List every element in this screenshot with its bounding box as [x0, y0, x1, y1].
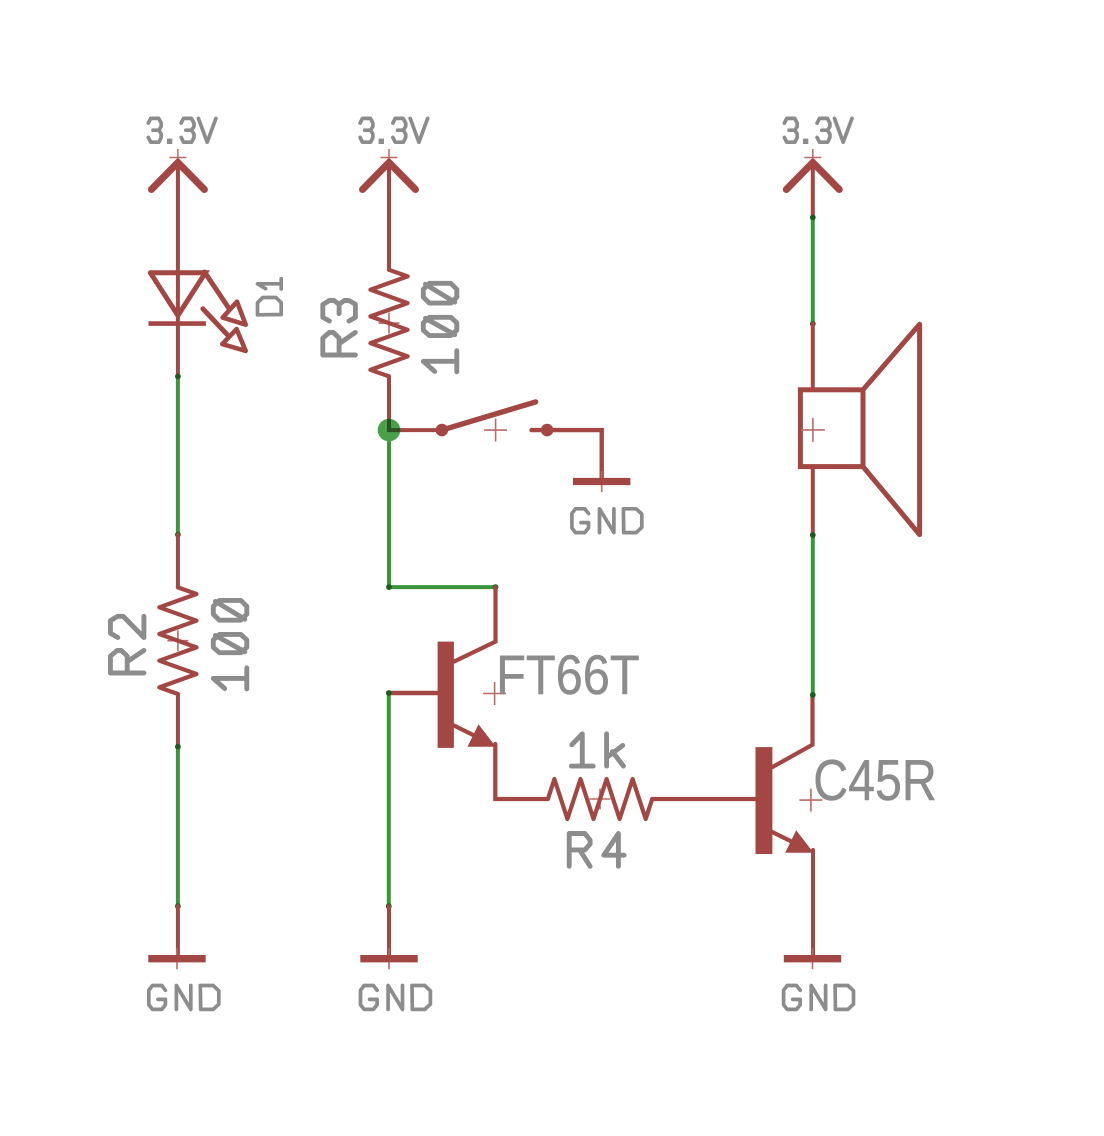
resistor R4	[548, 779, 652, 819]
pin wire R2 top	[176, 535, 180, 588]
pin wire R2 bottom	[176, 694, 180, 747]
transistor Q1 base pin	[389, 691, 440, 695]
label GND (left)	[149, 986, 219, 1010]
wire supply down (right)	[811, 161, 815, 217]
LED D1 emission arrow 1	[205, 272, 246, 325]
label 100 (R3 value)	[423, 283, 457, 372]
transistor Q2 bar	[756, 747, 773, 854]
wire switch to GND	[547, 430, 602, 478]
label 3.3V net (middle)	[360, 118, 428, 144]
pin wire to GND (middle)	[387, 906, 391, 955]
node dot	[175, 744, 181, 750]
switch S1 lever	[442, 402, 536, 430]
transistor Q2 collector pin	[772, 695, 812, 767]
ground GND (right)	[784, 948, 841, 969]
label C45R	[813, 749, 937, 813]
pin wire R3 bottom to junction	[387, 376, 391, 430]
node dot	[810, 321, 816, 327]
net wire Q1 base to GND	[387, 693, 391, 906]
transistor Q1 origin cross	[483, 682, 506, 705]
ground GND (middle)	[360, 948, 417, 969]
net wire junction down	[387, 430, 391, 587]
junction node	[378, 419, 401, 442]
wire R4 to Q2 base	[652, 797, 757, 801]
node dot	[810, 692, 816, 698]
node dot	[386, 690, 392, 696]
label D1	[258, 279, 282, 315]
label R2	[110, 616, 144, 673]
transistor Q2 emitter pin	[772, 830, 814, 853]
transistor Q2 origin cross	[799, 789, 822, 812]
speaker SP1 horn	[863, 324, 920, 534]
label R4	[569, 834, 624, 867]
wire Q1 emitter to R4	[495, 744, 548, 799]
svg-text:C45R: C45R	[813, 749, 937, 813]
wire junction to switch	[389, 428, 442, 432]
label 100 (R2 value)	[213, 600, 247, 689]
resistor R2	[159, 587, 196, 694]
LED D1 emission arrow 2	[203, 309, 246, 351]
pin wire speaker bottom	[811, 469, 815, 535]
svg-text:FT66T: FT66T	[496, 644, 640, 706]
node dot	[175, 532, 181, 538]
label FT66T	[496, 644, 640, 706]
label 1k (R4 value)	[571, 734, 623, 766]
node dot	[175, 903, 181, 909]
wire supply to LED anode	[176, 161, 180, 326]
node dot	[810, 532, 816, 538]
label 3.3V net (left)	[148, 118, 216, 144]
label GND (switch)	[572, 509, 642, 533]
net wire left lower	[176, 747, 180, 907]
node dot	[493, 584, 499, 590]
transistor Q1 collector pin	[454, 587, 496, 662]
wire Q2 emitter to GND	[811, 850, 815, 955]
power 3.3V supply P2	[363, 149, 416, 190]
node dot	[386, 584, 392, 590]
switch S1 throw contact	[532, 424, 554, 437]
switch S1 origin cross	[484, 419, 507, 442]
node dot	[175, 374, 181, 380]
power 3.3V supply P3	[786, 149, 839, 190]
net wire to Q1 collector	[389, 585, 496, 589]
label 3.3V net (right)	[784, 118, 852, 144]
wire supply to R3	[387, 161, 391, 270]
pin wire to GND (left)	[176, 906, 180, 955]
speaker SP1 box	[800, 390, 863, 467]
transistor Q1 bar	[438, 642, 454, 748]
net wire upper right	[811, 217, 815, 323]
ground GND (left)	[148, 948, 205, 969]
wire LED cathode to net	[176, 326, 180, 377]
pin wire speaker top	[811, 324, 815, 388]
resistor R3	[370, 270, 407, 377]
node dot	[810, 215, 816, 221]
transistor Q1 emitter pin	[454, 724, 496, 747]
LED D1	[149, 273, 206, 324]
label R3	[323, 301, 356, 356]
switch S1 pole contact	[436, 424, 449, 437]
speaker SP1 origin cross	[801, 418, 825, 442]
node dot	[386, 903, 392, 909]
power 3.3V supply P1	[151, 149, 204, 190]
net wire left upper	[176, 376, 180, 534]
label GND (right)	[784, 986, 854, 1010]
ground GND (switch)	[573, 471, 630, 492]
net wire lower right	[811, 535, 815, 695]
label GND (middle)	[361, 986, 431, 1010]
